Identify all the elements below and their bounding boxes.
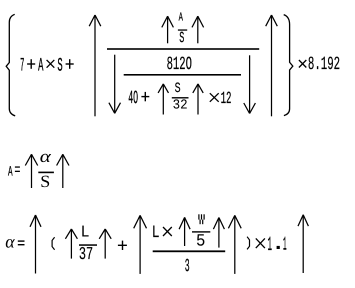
arrow medium-up left of fraction F3	[134, 215, 147, 274]
arrow up right of alpha/S F2	[57, 154, 69, 188]
left curly brace	[6, 14, 15, 116]
arrow small-up right of W/5	[213, 218, 224, 248]
arrow medium-up right of fraction F3	[228, 215, 241, 274]
arrow up right of L/37	[99, 229, 111, 259]
arrow small-up right of A/S	[192, 16, 204, 43]
svg-text:L: L	[81, 223, 90, 242]
svg-text:A: A	[38, 54, 44, 76]
arrow small-up left of S/32	[158, 84, 168, 115]
times before 12	[210, 93, 219, 102]
svg-text:S: S	[175, 81, 181, 97]
arrow small-up left of W/5	[179, 217, 190, 246]
times before 1.1 F3	[256, 238, 265, 248]
svg-text:37: 37	[79, 245, 93, 265]
open paren F3	[52, 237, 55, 250]
svg-text:A: A	[179, 11, 184, 25]
svg-text:α: α	[5, 231, 15, 251]
fraction bar L/37	[79, 244, 97, 246]
fraction bar main F3	[153, 250, 226, 252]
arrow big-up at end F3	[298, 215, 308, 273]
svg-text:L: L	[152, 224, 160, 243]
arrow down right of denominator	[244, 55, 256, 113]
arrow big-up left of fraction F1	[89, 15, 101, 116]
plus after S	[66, 59, 74, 69]
equals after alpha F3	[18, 240, 25, 245]
decimal dot of 1.1	[277, 246, 280, 249]
right curly brace	[284, 15, 293, 116]
svg-text:7: 7	[20, 54, 24, 76]
arrow big-up right of fraction F1	[266, 15, 278, 116]
svg-text:812O: 812O	[167, 54, 192, 75]
arrow small-up left of A/S	[162, 16, 174, 43]
svg-text:α: α	[40, 146, 52, 166]
times between A and S	[47, 60, 55, 68]
svg-text:3: 3	[185, 257, 190, 277]
svg-text:12: 12	[221, 90, 232, 109]
fraction bar alpha/S F2	[38, 172, 54, 174]
svg-text:32: 32	[173, 99, 188, 114]
letter W bar5	[202, 220, 203, 225]
svg-text:8.192: 8.192	[308, 54, 340, 75]
close paren F3	[247, 237, 249, 250]
letter W bar2	[201, 214, 202, 219]
plus in F3	[118, 241, 127, 250]
arrow up left of alpha/S F2	[25, 154, 37, 188]
arrow small-up right of S/32	[193, 84, 203, 115]
arrow up left of L/37	[65, 229, 77, 259]
svg-text:S: S	[40, 172, 50, 191]
svg-text:A: A	[8, 164, 13, 180]
letter W bar3	[204, 214, 205, 219]
svg-text:5: 5	[196, 232, 205, 251]
plus after 7	[27, 59, 35, 69]
fraction bar A/S	[178, 29, 187, 30]
svg-text:S: S	[179, 29, 184, 47]
letter W bar1	[198, 214, 199, 219]
svg-text:1: 1	[268, 234, 273, 257]
plus after 40	[141, 92, 149, 101]
arrow big-up after equals F3	[30, 215, 41, 274]
fraction bar main F1	[107, 48, 259, 50]
svg-text:1: 1	[283, 233, 287, 255]
equals after A F2	[15, 166, 20, 172]
svg-text:4O: 4O	[128, 88, 138, 109]
svg-text:S: S	[57, 54, 62, 76]
times after L F3	[163, 227, 172, 236]
times before 8.192	[299, 60, 306, 68]
fraction bar S/32	[172, 97, 189, 98]
letter W bar4	[200, 220, 201, 225]
fraction bar second F1	[124, 74, 241, 76]
arrow down left of denominator	[109, 55, 121, 114]
fraction bar W/5	[192, 231, 210, 232]
